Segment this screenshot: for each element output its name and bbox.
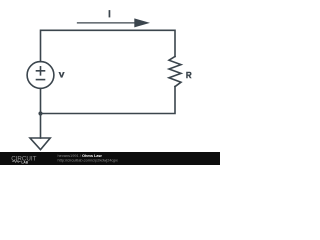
- svg-text:LAB: LAB: [21, 159, 28, 164]
- svg-text:http://circuitlab.com/c/p2kdwj: http://circuitlab.com/c/p2kdwj24qpx: [58, 158, 118, 163]
